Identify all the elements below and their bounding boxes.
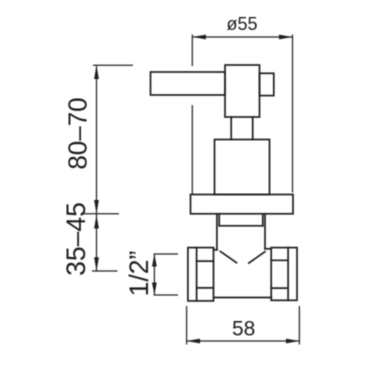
left dim top up arrowhead — [94, 65, 99, 79]
V mark left stroke — [220, 251, 236, 262]
svg-text:1/2”: 1/2” — [124, 251, 154, 297]
V mark right stroke — [249, 252, 265, 263]
dia55 right extension line — [292, 35, 294, 193]
handle hub block — [225, 65, 260, 117]
right connection nut outline — [271, 248, 297, 301]
left connection nut outline — [188, 248, 214, 301]
58 dimension line — [187, 340, 299, 342]
dia55 left arrowhead — [192, 35, 206, 40]
left nut lower flat edge — [197, 287, 214, 289]
right nut upper flat edge — [271, 259, 288, 261]
collar below flange: inner left side — [218, 214, 220, 226]
lever handle bar — [151, 72, 226, 95]
cartridge housing (upper body) — [215, 140, 270, 195]
right nut face line — [287, 248, 289, 301]
half-inch dimension vertical line — [153, 255, 155, 295]
left dim bottom down arrowhead — [94, 257, 99, 271]
left nut upper flat edge — [197, 260, 214, 262]
body bottom line — [215, 297, 272, 299]
left dim up arrowhead below middle tick — [94, 215, 99, 229]
svg-text:80–70: 80–70 — [63, 97, 93, 169]
left nut face line — [196, 248, 198, 301]
left dim top extension tick — [93, 64, 133, 66]
58 right extension line — [298, 306, 300, 345]
half-inch down arrowhead — [152, 283, 157, 296]
right jog to nut — [265, 248, 271, 250]
left dimension vertical line — [96, 66, 98, 271]
collar below flange: inner right side — [262, 214, 264, 226]
58 right arrowhead — [286, 339, 299, 344]
dia55 dimension line — [193, 36, 292, 38]
dia55 left extension line upper dash — [191, 35, 193, 67]
left jog to nut — [214, 249, 217, 251]
half-inch up arrowhead — [152, 254, 157, 267]
half-inch top extension line — [154, 253, 179, 255]
58 left arrowhead — [187, 339, 200, 344]
dia55 left extension line lower dash — [191, 105, 193, 194]
collar below flange: outer right side — [264, 214, 266, 249]
handle end stub — [260, 73, 274, 95]
right nut lower flat edge — [271, 287, 288, 289]
dia55 right arrowhead — [279, 35, 293, 40]
left dim middle extension tick — [83, 213, 120, 215]
collar below flange: outer left side — [216, 214, 218, 250]
svg-text:ø55: ø55 — [227, 14, 258, 34]
svg-text:58: 58 — [232, 318, 255, 341]
58 left extension line — [186, 306, 188, 345]
left dim down arrowhead at middle tick — [94, 200, 99, 214]
body top shoulder line — [219, 225, 263, 227]
svg-text:35–45: 35–45 — [61, 202, 91, 276]
left dim bottom extension tick — [92, 270, 118, 272]
escutcheon flange plate — [191, 195, 294, 214]
half-inch bottom extension line — [154, 294, 179, 296]
valve stem — [231, 117, 253, 140]
